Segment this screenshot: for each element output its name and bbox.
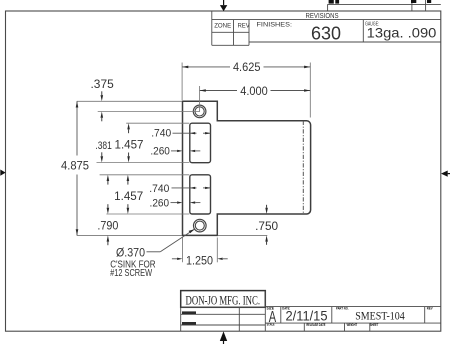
centering mark left xyxy=(0,170,5,176)
revision history strip (cut off at top) xyxy=(328,0,441,11)
svg-text:RELEASE DATE: RELEASE DATE xyxy=(306,323,325,327)
dimension 4.875 xyxy=(76,101,78,235)
centering mark top xyxy=(220,0,227,11)
dimension 4.000 xyxy=(200,90,311,92)
svg-text:SMEST-104: SMEST-104 xyxy=(355,309,405,322)
label DESIGNER xyxy=(182,311,196,314)
slot 1 (upper cutout) xyxy=(190,123,211,163)
svg-text:.260: .260 xyxy=(150,198,170,210)
svg-text:2/11/15: 2/11/15 xyxy=(286,309,328,324)
svg-text:.740: .740 xyxy=(151,128,171,140)
svg-text:13ga. .090: 13ga. .090 xyxy=(367,25,437,41)
centering mark right xyxy=(441,171,450,177)
svg-text:4.000: 4.000 xyxy=(240,86,268,98)
revisions table labels xyxy=(214,13,379,30)
svg-text:.740: .740 xyxy=(149,183,169,195)
svg-text:REV: REV xyxy=(238,22,251,29)
centering mark bottom xyxy=(220,331,227,344)
label APPROVED xyxy=(182,322,196,325)
svg-text:.375: .375 xyxy=(91,79,114,91)
svg-text:PART NO.: PART NO. xyxy=(336,307,349,311)
svg-text:WEIGHT: WEIGHT xyxy=(347,323,358,327)
svg-text:.750: .750 xyxy=(255,221,278,233)
svg-text:.790: .790 xyxy=(97,221,118,233)
title block left sub-block xyxy=(181,307,266,331)
revisions table xyxy=(212,11,441,45)
svg-text:DON-JO MFG. INC.: DON-JO MFG. INC. xyxy=(186,294,261,308)
part outline (strike plate) xyxy=(183,101,311,235)
small cell labels xyxy=(267,306,434,327)
svg-text:1.457: 1.457 xyxy=(115,140,144,152)
svg-text:ZONE: ZONE xyxy=(214,22,231,29)
extension lines xyxy=(77,63,310,263)
title block: DON-JO box xyxy=(181,291,266,308)
svg-text:#12 SCREW: #12 SCREW xyxy=(110,268,152,279)
svg-text:Ø.370: Ø.370 xyxy=(116,248,145,260)
svg-text:REVISIONS: REVISIONS xyxy=(306,13,339,20)
title block right sub-block xyxy=(265,291,441,332)
svg-text:630: 630 xyxy=(311,22,341,43)
svg-text:FINISHES:: FINISHES: xyxy=(257,21,293,28)
svg-text:REV: REV xyxy=(427,306,434,310)
dimension 4.625 xyxy=(182,66,310,68)
bottom hole (countersunk) xyxy=(194,219,207,232)
hole callout leader xyxy=(147,229,195,252)
svg-text:1.250: 1.250 xyxy=(186,255,213,267)
slot 2 (lower cutout) xyxy=(190,175,211,214)
svg-text:.260: .260 xyxy=(150,146,170,158)
svg-text:1.457: 1.457 xyxy=(114,191,143,203)
svg-text:.381: .381 xyxy=(95,140,112,152)
svg-text:4.625: 4.625 xyxy=(233,62,261,74)
svg-text:4.875: 4.875 xyxy=(61,161,89,173)
bend center line xyxy=(302,121,304,214)
svg-text:A: A xyxy=(269,309,277,326)
svg-text:SHEET: SHEET xyxy=(370,323,379,327)
top hole (countersunk) xyxy=(193,105,206,118)
